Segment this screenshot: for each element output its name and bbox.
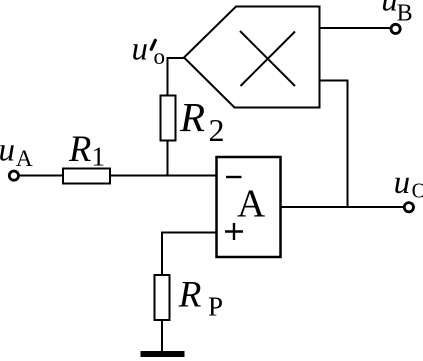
terminal uA xyxy=(9,171,18,180)
wire RP to ground xyxy=(161,320,163,352)
ground xyxy=(141,351,185,357)
svg-text:1: 1 xyxy=(92,142,106,172)
terminal uB xyxy=(391,24,400,33)
wire multiplier feedback to output node xyxy=(320,81,348,208)
wire junction to R2 xyxy=(167,140,169,177)
svg-text:u: u xyxy=(132,32,149,68)
wire uA to R1 xyxy=(19,175,64,177)
svg-text:R: R xyxy=(178,275,202,316)
svg-text:2: 2 xyxy=(209,112,225,148)
svg-text:P: P xyxy=(208,291,223,321)
wire op-amp noninverting input to RP xyxy=(162,233,217,276)
op-amp minus input mark xyxy=(226,176,242,178)
label R2 xyxy=(179,94,225,148)
resistor RP xyxy=(155,275,170,320)
label uo xyxy=(394,165,423,203)
label uA xyxy=(0,133,33,172)
svg-text:R: R xyxy=(179,94,205,140)
multiplier cross xyxy=(240,31,295,86)
wire op-amp output to uo xyxy=(281,206,405,208)
terminal uo xyxy=(404,203,413,212)
svg-text:o: o xyxy=(154,44,166,69)
svg-text:B: B xyxy=(397,0,413,26)
op-amp plus input mark xyxy=(225,223,243,240)
svg-text:R: R xyxy=(68,128,91,169)
svg-text:A: A xyxy=(237,182,265,225)
svg-text:u: u xyxy=(394,165,411,201)
wire R2 to node uo' xyxy=(168,58,185,96)
label RP xyxy=(178,275,223,322)
op-amp body xyxy=(217,157,281,257)
label uB xyxy=(381,0,412,26)
resistor R1 xyxy=(63,169,110,184)
wire multiplier to uB xyxy=(320,27,392,29)
wire R1 to op-amp inverting input xyxy=(110,175,217,177)
label uo-prime xyxy=(132,32,166,70)
svg-text:O: O xyxy=(412,179,423,203)
svg-text:A: A xyxy=(16,146,33,172)
label R1 xyxy=(68,128,105,171)
svg-text:u: u xyxy=(0,133,15,169)
multiplier body xyxy=(184,7,320,108)
resistor R2 xyxy=(161,96,176,141)
svg-text:u: u xyxy=(381,0,398,19)
